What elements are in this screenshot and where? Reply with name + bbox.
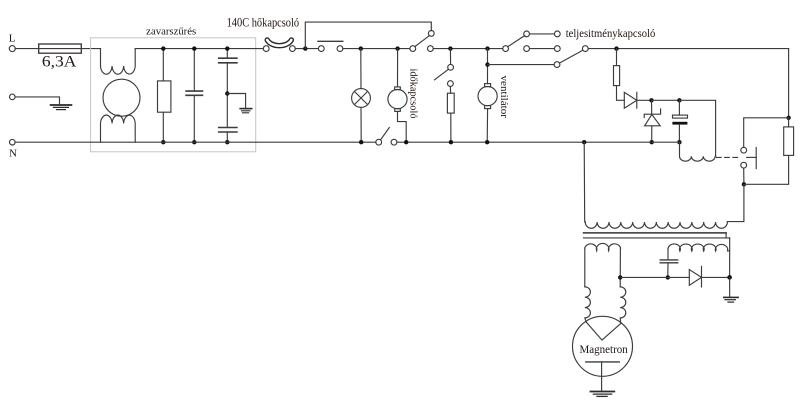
- node C5 bottom: [666, 275, 670, 279]
- capacitor C5: [660, 259, 678, 261]
- linkage solid: [747, 156, 757, 158]
- power switch S5 contact G: [582, 46, 588, 52]
- power switch S5 contact B: [524, 31, 530, 37]
- wire bypass upper: [305, 22, 431, 48]
- resistor R3 lead bottom: [744, 155, 789, 184]
- node C1 bottom: [192, 140, 196, 144]
- cutout switch S4 contact bottom: [448, 81, 454, 87]
- cutout switch S4 contact top: [448, 64, 454, 70]
- fan motor M2 brush top: [485, 84, 491, 87]
- wire cap node to coil corner: [679, 100, 715, 156]
- node relay bottom junction: [742, 182, 746, 186]
- wire relay top to tee: [744, 118, 789, 148]
- wire D3 to HV junction: [702, 276, 730, 278]
- monitor switch S6 blade: [381, 128, 390, 140]
- filament lead left: [584, 248, 586, 287]
- power switch S5 wire B-C: [530, 33, 555, 35]
- node fan bottom: [485, 140, 489, 144]
- node cap bottom: [677, 140, 681, 144]
- svg-text:zavarszűrés: zavarszűrés: [146, 27, 196, 38]
- relay coil K1: [680, 142, 716, 161]
- diode D1: [624, 92, 637, 108]
- capacitor C2 (Y upper): [226, 49, 228, 59]
- thermal switch S1 bimetal: [267, 40, 291, 46]
- svg-text:teljesitménykapcsoló: teljesitménykapcsoló: [566, 26, 656, 40]
- wire zener node to cap node: [652, 99, 680, 101]
- lamp E1: [352, 89, 371, 108]
- thermal switch S1 contact left: [263, 46, 269, 52]
- door switch S2 contact right: [337, 46, 343, 52]
- power switch S5 contact E: [554, 46, 560, 52]
- magnetron anode stem: [601, 362, 603, 391]
- svg-text:N: N: [9, 148, 17, 160]
- door switch S2 bar: [318, 40, 343, 42]
- svg-text:időkapcsoló: időkapcsoló: [408, 69, 420, 119]
- capacitor C5 lead bottom: [667, 263, 669, 278]
- relay movable bar: [755, 148, 757, 169]
- power switch S5 contact C: [554, 31, 560, 37]
- resistor R3: [784, 127, 794, 155]
- zener D2 bar: [644, 109, 660, 118]
- wire D1 to zener node: [637, 99, 652, 101]
- power switch S5 blade A-B: [508, 36, 525, 47]
- fan motor M2: [478, 87, 497, 106]
- selector switch S3 contact right: [428, 46, 434, 52]
- choke core circle: [103, 79, 140, 116]
- resistor R4: [447, 93, 454, 113]
- transformer T1 primary winding: [585, 222, 727, 228]
- node Y midpoint: [225, 91, 229, 95]
- node right tee: [786, 116, 790, 120]
- transformer T1 filament winding: [585, 243, 621, 250]
- node R1 top: [161, 46, 165, 50]
- bottom rail right: [397, 141, 680, 143]
- magnetron filament choke left: [585, 287, 591, 323]
- magnetron filament choke right: [620, 287, 626, 324]
- ground (HV): [729, 277, 731, 297]
- node bypass tap: [303, 46, 307, 50]
- selector switch S3 contact upper: [428, 31, 434, 37]
- capacitor C4 plate bottom: [672, 122, 687, 125]
- timer motor M1: [388, 90, 407, 109]
- power switch S5 wire D-E: [530, 48, 555, 50]
- node C1 top: [192, 46, 196, 50]
- selector switch S3 contact left: [410, 46, 416, 52]
- timer motor M1 brush bottom: [395, 109, 401, 112]
- resistor R4 lead: [449, 87, 451, 94]
- door switch S2 contact left: [318, 46, 324, 52]
- node timer bottom: [404, 140, 408, 144]
- fan motor M2 lead bottom: [486, 109, 488, 143]
- filter box zavarszures: [91, 38, 256, 152]
- filament lead right: [619, 248, 621, 287]
- transformer T1 core top: [584, 232, 727, 234]
- node lamp bottom: [359, 140, 363, 144]
- svg-text:ventilátor: ventilátor: [498, 76, 510, 119]
- node cutout branch: [448, 46, 452, 50]
- wire row2 to contact F: [488, 64, 555, 66]
- lamp E1 lead top: [360, 49, 362, 89]
- node Y top: [225, 46, 229, 50]
- wire right drop: [788, 49, 790, 118]
- capacitor C1: [193, 49, 195, 92]
- resistor R1: [162, 49, 164, 81]
- zener D2 lead: [651, 100, 653, 114]
- choke L1 top winding: [101, 49, 136, 75]
- choke L1 bottom winding: [101, 115, 136, 142]
- node row2 tap: [485, 62, 489, 66]
- relay contact bottom: [741, 162, 747, 168]
- node filament tap: [618, 275, 622, 279]
- cutout switch S4 lead: [449, 49, 451, 65]
- ground (magnetron): [591, 392, 615, 397]
- wire earth terminal: [15, 97, 59, 105]
- fuse F1 6,3A: [39, 44, 82, 53]
- node Y bottom: [225, 140, 229, 144]
- capacitor C4 plate top: [673, 115, 688, 118]
- node R4 bottom: [449, 140, 453, 144]
- wire core to HV junction: [729, 238, 731, 278]
- node R1 bottom: [161, 140, 165, 144]
- timer motor M1 lead bottom: [398, 111, 407, 142]
- ground (input earth): [51, 105, 72, 110]
- selector switch S3 blade: [415, 36, 429, 47]
- terminal earth: [10, 94, 16, 100]
- power switch S5 contact F: [554, 62, 560, 68]
- power switch S5 blade F-G: [560, 50, 583, 63]
- linkage dashes: [717, 156, 742, 158]
- bottom rail left: [15, 141, 376, 143]
- cutout switch S4 blade: [435, 69, 449, 80]
- node cap top: [677, 98, 681, 102]
- magnetron anode bar: [586, 361, 620, 363]
- timer motor M1 lead top: [397, 49, 399, 87]
- capacitor C3 (Y lower): [226, 94, 228, 128]
- node zener bottom: [650, 140, 654, 144]
- resistor R2: [614, 66, 620, 86]
- ground (filter): [240, 109, 252, 113]
- svg-text:L: L: [9, 33, 16, 45]
- svg-text:6,3A: 6,3A: [42, 53, 77, 70]
- wire door switch to selector: [343, 48, 410, 50]
- transformer T1 HV winding: [668, 244, 730, 251]
- node primary tap: [582, 140, 586, 144]
- wire relay bottom to junction: [743, 168, 745, 184]
- wire selector to cutout node: [433, 48, 502, 50]
- relay contact top: [741, 147, 747, 153]
- wire fuse to filter: [81, 48, 100, 50]
- resistor R2 lead bottom: [617, 86, 625, 101]
- zener D2 triangle: [645, 114, 661, 125]
- power switch S5 contact D: [524, 46, 530, 52]
- wire thermal to door switch: [295, 48, 318, 50]
- svg-text:Magnetron: Magnetron: [580, 344, 629, 356]
- wire junction to primary: [727, 184, 744, 221]
- power switch S5 contact A: [503, 46, 509, 52]
- wire G to right corner: [588, 48, 788, 50]
- capacitor C4 lead bottom: [678, 125, 680, 143]
- filament wire: [620, 276, 689, 278]
- wire choke to thermal switch: [135, 48, 263, 50]
- diode D3: [689, 270, 701, 286]
- node R2 top: [614, 46, 618, 50]
- timer motor M1 brush top: [395, 87, 401, 90]
- resistor R2 lead top: [616, 49, 618, 66]
- magnetron cathode V: [587, 322, 621, 340]
- HV lead to capacitor: [667, 249, 669, 260]
- node lamp top: [359, 46, 363, 50]
- terminal L: [9, 46, 15, 52]
- fan motor M2 brush bottom: [485, 106, 491, 109]
- node timer top: [395, 46, 399, 50]
- node zener top: [649, 98, 653, 102]
- transformer T1 core step: [725, 233, 727, 238]
- transformer T1 primary lead: [583, 142, 586, 222]
- lamp E1 lead bottom: [360, 107, 362, 142]
- terminal N: [10, 139, 16, 145]
- resistor R3 lead top: [788, 118, 790, 127]
- resistor R4 lead bottom: [450, 113, 452, 142]
- capacitor C4 lead top: [678, 100, 680, 115]
- node ventilator branch: [485, 46, 489, 50]
- wire Y midpoint to ground: [227, 94, 245, 109]
- monitor switch S6 contact right: [391, 139, 397, 145]
- thermal switch S1 contact right: [290, 46, 296, 52]
- svg-text:140C hőkapcsoló: 140C hőkapcsoló: [227, 16, 300, 30]
- magnetron V1 body: [573, 316, 633, 376]
- zener D2 lead bottom: [651, 126, 653, 142]
- node HV junction: [727, 275, 732, 280]
- ventilator branch lead: [487, 49, 489, 84]
- wire L to fuse: [15, 48, 38, 50]
- monitor switch S6 contact left: [376, 139, 382, 145]
- transformer T1 core bottom: [584, 237, 730, 239]
